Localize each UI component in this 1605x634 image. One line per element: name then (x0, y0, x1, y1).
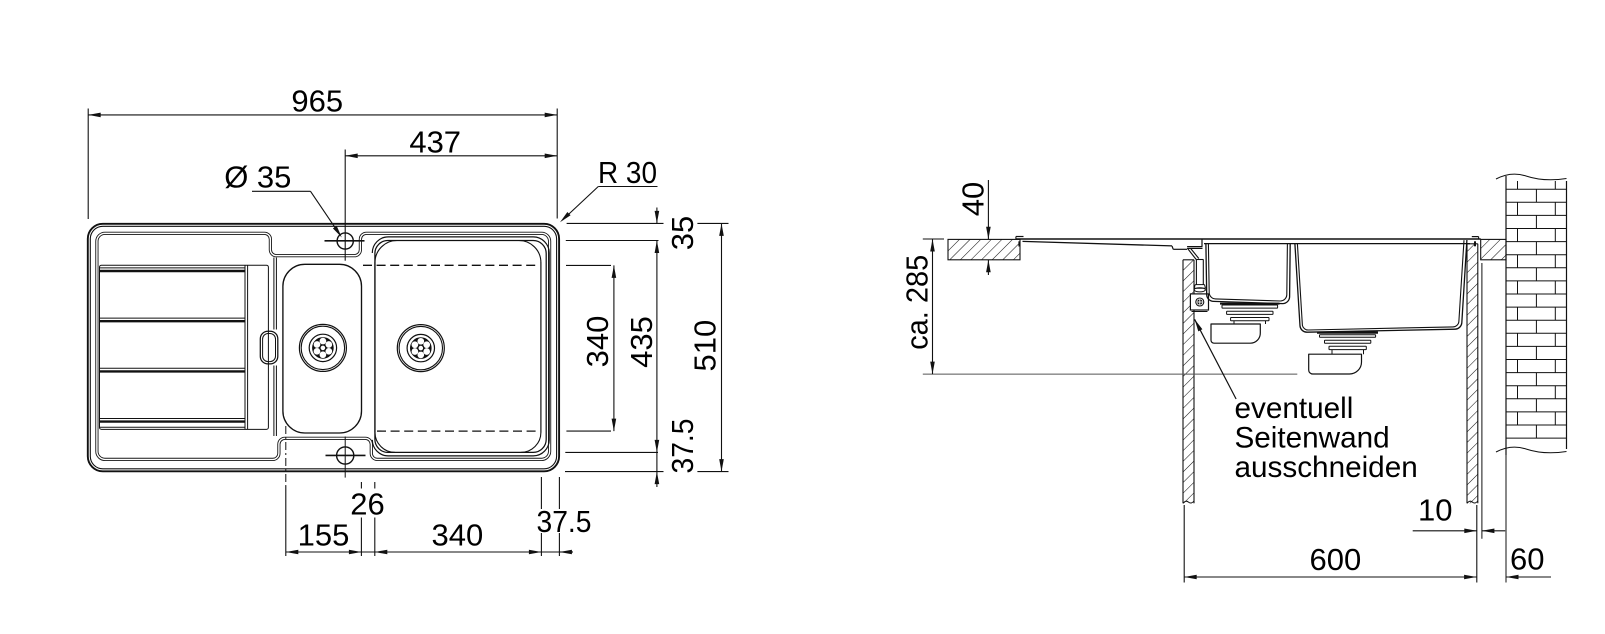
svg-text:R 30: R 30 (598, 155, 657, 190)
svg-text:510: 510 (688, 320, 723, 372)
svg-text:965: 965 (291, 84, 343, 119)
svg-text:ca. 285: ca. 285 (900, 255, 935, 350)
svg-text:37.5: 37.5 (665, 419, 700, 474)
svg-text:37.5: 37.5 (537, 504, 592, 539)
svg-text:10: 10 (1418, 493, 1452, 528)
svg-text:Seitenwand: Seitenwand (1235, 421, 1390, 454)
svg-text:ausschneiden: ausschneiden (1235, 451, 1418, 484)
svg-text:155: 155 (298, 517, 350, 552)
svg-text:40: 40 (955, 182, 990, 216)
svg-text:437: 437 (409, 124, 461, 159)
svg-text:Ø 35: Ø 35 (224, 160, 291, 195)
svg-text:26: 26 (350, 487, 384, 522)
svg-text:eventuell: eventuell (1235, 392, 1354, 425)
svg-text:435: 435 (624, 316, 659, 368)
svg-text:600: 600 (1310, 542, 1362, 577)
svg-text:340: 340 (432, 517, 484, 552)
svg-text:340: 340 (580, 316, 615, 368)
svg-text:60: 60 (1510, 542, 1544, 577)
svg-text:35: 35 (665, 216, 700, 250)
